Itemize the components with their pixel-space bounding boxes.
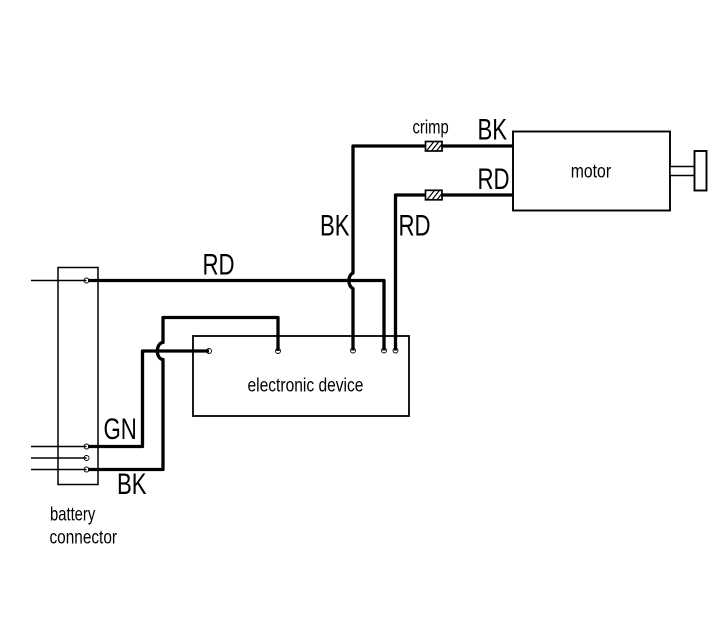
svg-text:motor: motor [571,160,611,182]
svg-text:BK: BK [478,112,508,146]
svg-text:RD: RD [399,208,431,242]
svg-text:RD: RD [478,162,510,196]
svg-text:battery: battery [50,504,96,525]
svg-text:crimp: crimp [413,117,449,138]
svg-text:BK: BK [117,467,147,501]
svg-text:electronic device: electronic device [248,374,364,396]
svg-text:BK: BK [320,208,350,242]
svg-text:connector: connector [50,526,118,548]
svg-text:RD: RD [203,247,235,281]
svg-text:GN: GN [104,412,137,446]
